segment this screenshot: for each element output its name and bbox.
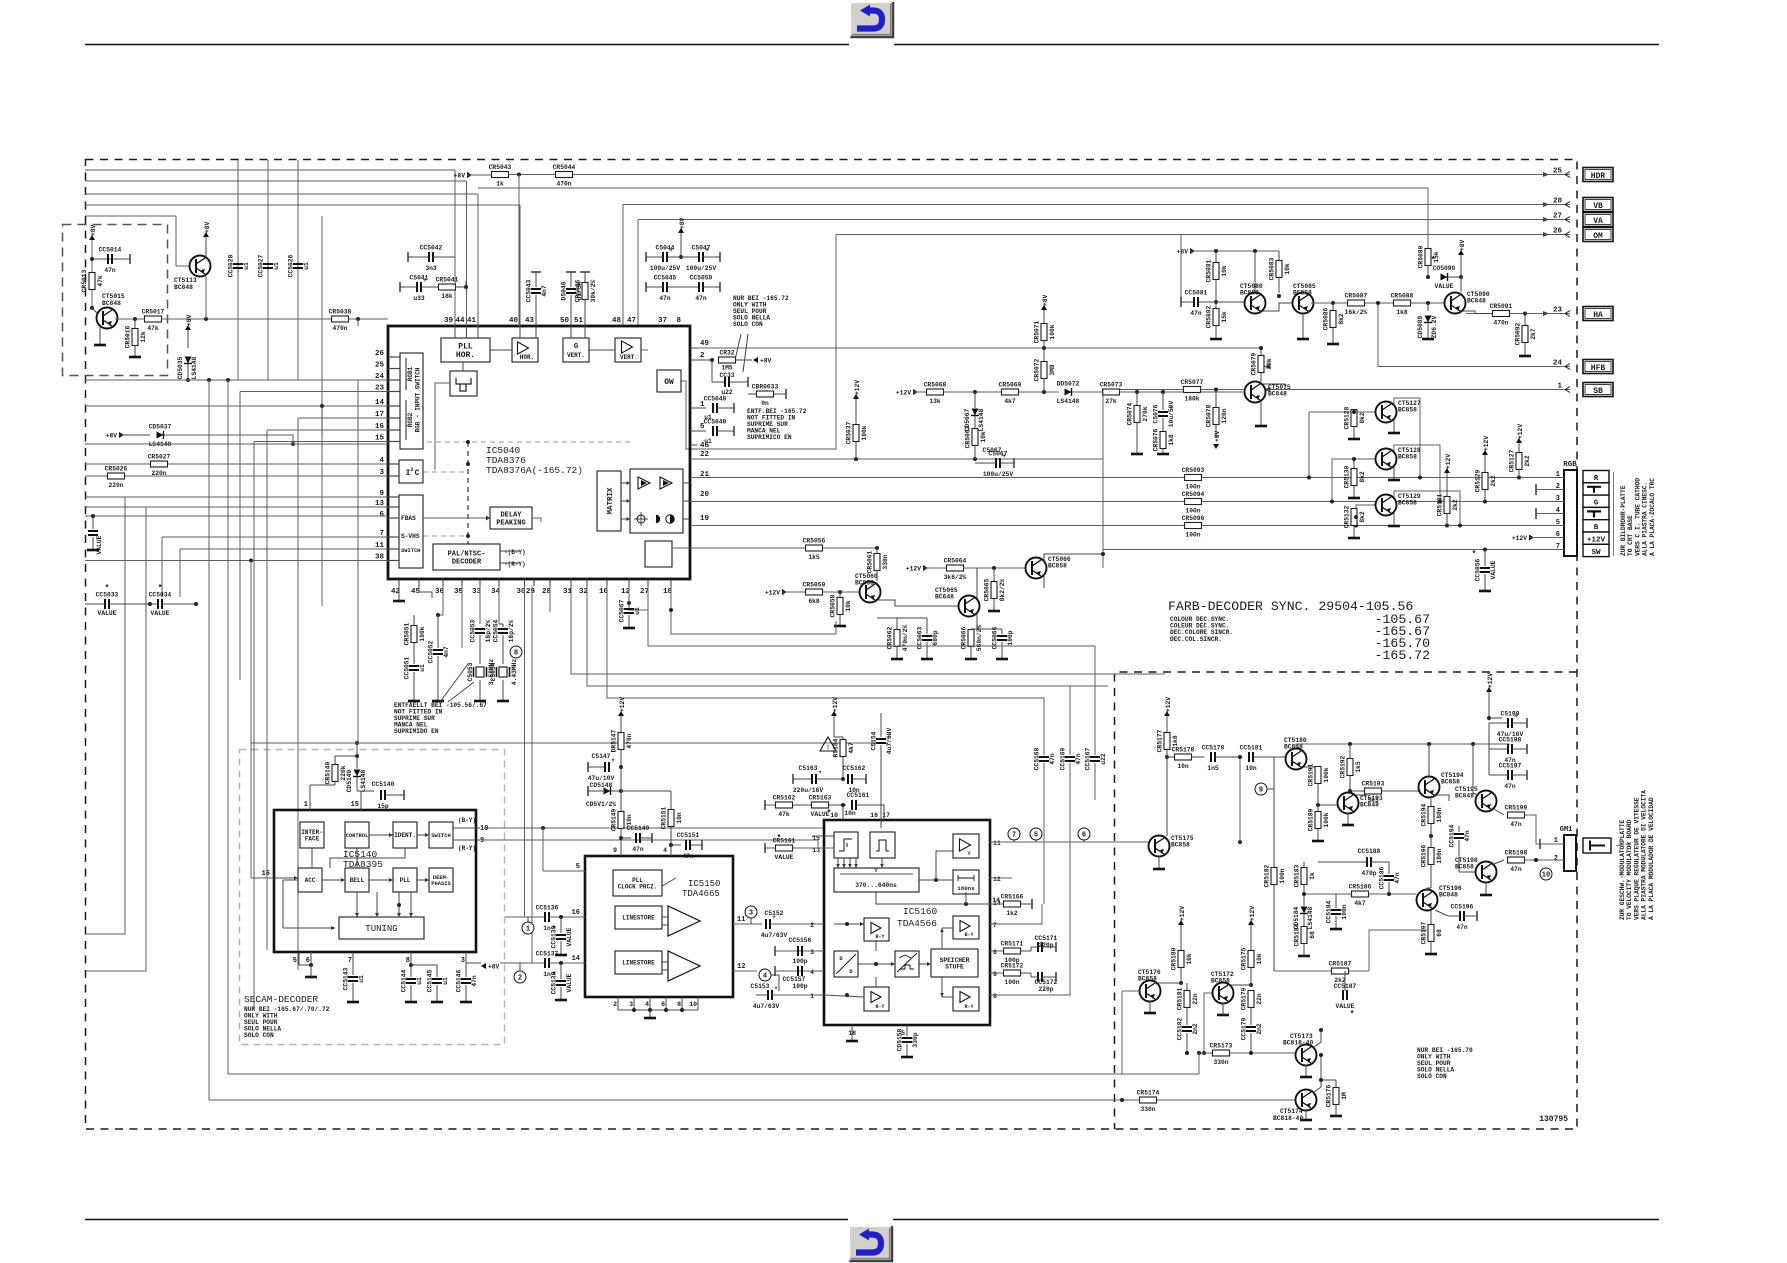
wire <box>690 347 697 349</box>
resistor CR5078 <box>1206 404 1229 427</box>
svg-text:CR5094: CR5094 <box>1182 491 1205 498</box>
svg-text:2: 2 <box>1554 855 1558 863</box>
warning triangle R5164 <box>820 737 836 751</box>
junction <box>1331 301 1335 305</box>
wire <box>357 319 359 326</box>
diode <box>1300 907 1308 914</box>
junction <box>845 993 849 997</box>
resistor CR5186 <box>1349 884 1372 908</box>
svg-text:CC5034: CC5034 <box>149 592 172 599</box>
wire CR5061 top <box>876 548 878 554</box>
wire node <box>971 628 1002 630</box>
svg-text:5: 5 <box>293 957 297 965</box>
wire CR5161 left <box>765 847 776 849</box>
svg-text:CD5158: CD5158 <box>897 1028 904 1051</box>
svg-text:3: 3 <box>749 910 753 918</box>
wire CR5189 top <box>1317 805 1319 812</box>
wire CR5079 top <box>1260 348 1262 356</box>
svg-text:CR5172: CR5172 <box>1001 963 1024 970</box>
wire <box>465 952 467 963</box>
svg-text:VALUE: VALUE <box>1490 560 1497 579</box>
ground <box>965 658 977 661</box>
svg-text:u1: u1 <box>442 977 449 985</box>
power +8V <box>1041 294 1049 310</box>
svg-text:PLL: PLL <box>458 342 473 351</box>
svg-text:330n: 330n <box>1140 1106 1155 1113</box>
resistor CR5129 <box>1475 469 1498 492</box>
top-left dashed component box <box>63 225 168 376</box>
power +12V <box>896 389 918 397</box>
capacitor CC5052 <box>428 640 451 663</box>
wire CR5173 left <box>1199 1052 1213 1054</box>
svg-text:8: 8 <box>676 317 681 325</box>
wire CR5162 to CR5163 <box>793 804 812 806</box>
resistor CR5062 <box>887 625 910 652</box>
wire CC5194 top <box>1458 826 1460 832</box>
wire CC5188 right <box>1371 862 1389 874</box>
junction <box>874 962 878 966</box>
wire CC5063 top <box>926 618 928 634</box>
junction <box>91 514 95 518</box>
junction <box>436 613 440 617</box>
svg-text:VALUE: VALUE <box>566 927 573 946</box>
wire <box>1472 744 1474 793</box>
wire CC5042 right <box>433 256 455 258</box>
resistor CR5096 <box>1182 515 1205 539</box>
block <box>645 541 672 567</box>
svg-text:100n: 100n <box>1341 904 1348 919</box>
junction <box>1426 301 1430 305</box>
amplifier B-Y out symbol <box>960 921 970 932</box>
wire <box>876 892 990 904</box>
svg-text:CT5015: CT5015 <box>102 293 125 300</box>
ground <box>988 610 1000 613</box>
svg-text:3k6/2%: 3k6/2% <box>944 574 967 581</box>
block <box>953 916 979 939</box>
wire <box>1044 554 1103 560</box>
wire CC5198 right <box>1512 748 1527 750</box>
wire to TUNING x411 <box>410 892 412 917</box>
resistor CR5091 <box>1490 303 1513 327</box>
svg-text:CC5178: CC5178 <box>1202 745 1225 752</box>
diode <box>971 409 979 416</box>
wire CR5092 top <box>1524 314 1526 327</box>
resistor CR5079 <box>1251 352 1274 375</box>
wire pin 32 stub <box>586 579 588 586</box>
capacitor CC5027 <box>258 254 281 277</box>
wire CC5066 top <box>1001 629 1003 634</box>
wire CT5015 to CR5017 <box>115 318 144 320</box>
amplifier symbol G out <box>660 477 672 489</box>
svg-text:3: 3 <box>810 949 814 956</box>
svg-text:17: 17 <box>882 812 890 819</box>
block <box>339 917 424 939</box>
wire <box>1030 947 1032 951</box>
wire to CR5178 <box>1167 756 1175 758</box>
resistor CR5175 <box>1241 947 1264 970</box>
wire <box>941 977 943 997</box>
wire <box>629 586 648 610</box>
svg-text:16: 16 <box>572 909 580 917</box>
wire aux out to CR5056 <box>672 547 806 549</box>
transistor CT5080 <box>1245 293 1266 314</box>
svg-text:47k: 47k <box>147 325 159 332</box>
wire <box>836 234 1570 236</box>
svg-text:CR5051: CR5051 <box>404 622 411 645</box>
capacitor CC5184 <box>1326 900 1349 923</box>
svg-text:2: 2 <box>613 1001 617 1008</box>
wire vertical x254 <box>253 442 255 1011</box>
junction <box>226 378 230 382</box>
wire <box>357 380 359 743</box>
junction <box>204 317 208 321</box>
diode <box>1441 273 1448 281</box>
wire <box>1356 794 1366 796</box>
svg-text:1k: 1k <box>496 181 504 188</box>
wire +8V to CR5043 <box>467 174 491 176</box>
resistor CR5074 <box>1127 402 1150 425</box>
svg-text:u1: u1 <box>634 607 641 615</box>
wire CC5048 right <box>717 407 734 409</box>
svg-text:0n: 0n <box>761 400 769 407</box>
svg-text:-(R-Y): -(R-Y) <box>504 561 526 568</box>
svg-text:DR5147: DR5147 <box>611 729 618 752</box>
junction <box>1319 1078 1323 1082</box>
resistor CR5041 <box>436 277 459 301</box>
wire stub <box>570 272 572 287</box>
svg-text:HFB: HFB <box>1591 364 1606 373</box>
wire CC5067 bottom <box>628 615 630 627</box>
svg-text:+8V: +8V <box>204 221 211 233</box>
wire CR5178 to CC5178 <box>1192 756 1205 758</box>
wire CR5068 to CR5069 <box>944 391 1002 393</box>
power +8V <box>185 314 193 330</box>
svg-text:CR5026: CR5026 <box>105 466 128 473</box>
svg-text:1k8: 1k8 <box>1396 309 1408 316</box>
junction <box>875 546 879 550</box>
ground <box>834 625 846 628</box>
capacitor C5154 <box>871 728 894 755</box>
svg-text:+12V: +12V <box>1487 673 1494 688</box>
resistor CR5059 <box>803 582 826 606</box>
wire <box>990 884 1070 995</box>
resistor CR5046 <box>575 279 598 302</box>
wire <box>818 950 824 952</box>
svg-text:CC5139: CC5139 <box>551 925 558 948</box>
svg-text:100n: 100n <box>1279 868 1286 883</box>
svg-text:+12V: +12V <box>619 697 626 712</box>
svg-text:3: 3 <box>461 957 465 965</box>
wire <box>1158 982 1181 984</box>
wire <box>1459 871 1475 873</box>
capacitor <box>605 757 615 772</box>
wire DD5072 to CR5073 <box>1072 391 1103 393</box>
svg-text:CC5026: CC5026 <box>288 254 295 277</box>
resistor CR5132 <box>1344 505 1367 528</box>
svg-text:BC648: BC648 <box>935 594 954 601</box>
svg-text:10k: 10k <box>1256 953 1263 965</box>
junction <box>1458 524 1462 528</box>
wire <box>875 977 877 987</box>
capacitor CC5146 <box>456 969 479 992</box>
wire CR5072 to rail <box>1043 379 1045 393</box>
svg-text:BC818-40: BC818-40 <box>1283 1040 1313 1047</box>
svg-text:CR5128: CR5128 <box>1344 406 1351 429</box>
wire pin 15 stub <box>388 441 400 443</box>
wire <box>1239 757 1241 842</box>
wire CR5037 to pin22 line <box>855 442 857 460</box>
wire <box>419 586 432 598</box>
resistor CR5068 <box>924 382 947 406</box>
capacitor <box>1038 942 1042 952</box>
capacitor CC5143 <box>343 967 366 990</box>
capacitor C5067 <box>983 451 1013 479</box>
wire <box>1489 748 1508 750</box>
wire CR5058 top <box>839 592 841 598</box>
svg-text:CC5171: CC5171 <box>1035 935 1058 942</box>
wire +8V down <box>91 240 93 308</box>
wire <box>1448 915 1460 917</box>
wire CC5053 to crystal <box>479 635 481 664</box>
wire <box>477 326 479 338</box>
svg-text:CC5033: CC5033 <box>96 592 119 599</box>
wire <box>1102 390 1104 569</box>
wire <box>648 586 1095 646</box>
capacitor CC5048 <box>704 396 727 414</box>
wire C5053 bottom <box>479 680 481 700</box>
svg-text:+8V: +8V <box>106 433 118 440</box>
wire OM to CC5081 <box>1180 235 1182 298</box>
wire <box>251 877 274 879</box>
wire <box>356 848 358 868</box>
ground <box>129 356 141 359</box>
svg-text:CC5043: CC5043 <box>526 279 533 302</box>
junction <box>1354 524 1358 528</box>
svg-text:BC858: BC858 <box>1398 454 1417 461</box>
junction <box>1387 892 1391 896</box>
svg-text:18p/2%: 18p/2% <box>485 619 492 642</box>
capacitor CC5145 <box>427 969 450 992</box>
junction <box>1042 390 1046 394</box>
ground <box>1480 894 1492 897</box>
wire CC5184 top <box>1335 894 1337 908</box>
wire <box>1202 525 1565 527</box>
wire CC5139 top <box>560 917 562 933</box>
svg-text:10: 10 <box>480 825 488 833</box>
wire CR5081 bottom <box>1215 280 1217 303</box>
wire pin 25 stub <box>388 368 400 370</box>
wire CR5179 bottom <box>1250 1008 1252 1026</box>
wire <box>1463 311 1492 314</box>
wire to ground <box>649 1010 651 1017</box>
wire CR5079 to CT5075 <box>1260 373 1262 383</box>
resistor CR5191 <box>1308 763 1331 786</box>
inline connector 2 <box>514 971 526 983</box>
crystal C5054 <box>490 659 518 686</box>
wire <box>519 326 521 338</box>
junction <box>186 378 190 382</box>
wire <box>1489 774 1508 776</box>
wire <box>1309 412 1375 478</box>
wire CC5149 right <box>640 837 652 839</box>
wire <box>1318 804 1337 806</box>
power +12V <box>1444 454 1452 473</box>
wire to CT5196 base region <box>1369 930 1427 971</box>
wire <box>283 927 335 929</box>
svg-text:LS4148: LS4148 <box>1307 906 1314 929</box>
svg-text:CR5068: CR5068 <box>924 382 947 389</box>
wire CC5187 top <box>1344 971 1346 991</box>
wire CR5177 bottom <box>1166 750 1168 758</box>
connector label HFB <box>1583 360 1613 374</box>
wire C5047 right <box>703 256 720 258</box>
svg-text:*: * <box>827 809 832 818</box>
wire CR5131 bottom <box>1446 514 1448 526</box>
wire CR5086 bottom <box>1332 328 1334 344</box>
wire CR5073 to CT5075 <box>1120 391 1244 393</box>
wire <box>85 496 388 498</box>
svg-text:BC858: BC858 <box>1455 864 1474 871</box>
wire <box>454 326 456 338</box>
resistor CR5072 <box>1034 358 1057 381</box>
wire <box>85 215 176 217</box>
resistor CR5197 <box>1421 921 1444 944</box>
resistor CR5065 <box>984 578 1007 601</box>
IC5040 internal dashed frame <box>400 441 633 443</box>
svg-text:CR5151: CR5151 <box>661 806 668 829</box>
wire CC5033 right <box>109 603 150 605</box>
wire (B-Y) out <box>453 827 480 829</box>
wire CR5183 top <box>1303 862 1305 868</box>
resistor R5164 <box>833 738 856 757</box>
wire <box>690 501 1185 503</box>
wire CR5149 to pin9 <box>620 829 622 857</box>
svg-text:CR5179: CR5179 <box>1241 987 1248 1010</box>
capacitor C5047 <box>686 245 716 273</box>
resistor CR5026 <box>105 466 128 490</box>
wire C5163 left <box>793 778 812 780</box>
svg-text:CR5130: CR5130 <box>1344 465 1351 488</box>
wire <box>435 383 450 470</box>
wire CR5166 right <box>1021 903 1033 905</box>
resistor CR32 <box>719 350 736 364</box>
wire CR5181 top <box>1186 983 1188 991</box>
junction <box>207 378 211 382</box>
wire CC5168 bottom <box>1043 763 1045 904</box>
wire CC5049 right <box>717 430 734 432</box>
inline connector 9 <box>1255 783 1267 795</box>
ground <box>846 1040 858 1043</box>
wire CC5188 left <box>1318 861 1367 863</box>
ground <box>460 1001 472 1004</box>
wire CC5151 right <box>690 844 702 846</box>
wire <box>976 568 978 598</box>
wire pin 26 stub <box>388 356 400 358</box>
wire CC33 right <box>729 381 748 383</box>
wire <box>697 347 1261 349</box>
svg-text:10n: 10n <box>1177 763 1189 770</box>
svg-text:+12V: +12V <box>1587 537 1606 545</box>
svg-text:CR5173: CR5173 <box>1210 1043 1233 1050</box>
svg-text:100p: 100p <box>792 983 807 990</box>
bracket line GM1 label <box>1616 845 1620 847</box>
svg-text:8k2: 8k2 <box>1359 511 1366 523</box>
wire CD5184 bottom <box>1303 914 1305 927</box>
svg-text:CR5069: CR5069 <box>999 382 1022 389</box>
svg-text:CR5180: CR5180 <box>1171 947 1178 970</box>
capacitor CC5186 <box>1379 866 1402 889</box>
svg-text:CC5181: CC5181 <box>1240 745 1263 752</box>
label box SW of RGB connector <box>1583 544 1609 556</box>
wire from bus <box>1121 991 1123 1074</box>
outer dashed board border <box>86 160 1578 1130</box>
svg-text:CR5175: CR5175 <box>1241 947 1248 970</box>
wire CR5194 top <box>1430 799 1432 807</box>
svg-text:CR5037: CR5037 <box>846 421 853 444</box>
wire base CT5015 <box>92 308 97 313</box>
svg-text:8k2/2%: 8k2/2% <box>999 578 1006 601</box>
capacitor CC5028 <box>228 254 251 277</box>
svg-text:+8V: +8V <box>186 314 193 326</box>
op-amp U IC5040 TDA8376 outline <box>388 326 690 579</box>
svg-text:BC858: BC858 <box>1138 976 1157 983</box>
resistor CR5178 <box>1172 747 1195 771</box>
wire CR5189 bottom <box>1317 829 1319 841</box>
inline connector 3 <box>745 906 757 918</box>
wire CR5038 to IC <box>349 318 389 320</box>
wire <box>990 904 1042 924</box>
wire circ3 <box>750 918 752 924</box>
resistor CR5017 <box>142 309 165 333</box>
wire <box>941 928 943 949</box>
ground <box>497 700 509 703</box>
ground <box>1348 438 1360 441</box>
wire pin6 down <box>665 997 667 1010</box>
junction <box>1426 275 1430 279</box>
inline connector 5 <box>1030 828 1042 840</box>
block <box>953 987 979 1011</box>
svg-text:CD5V1/2%: CD5V1/2% <box>586 801 616 808</box>
svg-text:12: 12 <box>993 876 1001 883</box>
svg-text:29: 29 <box>526 588 536 596</box>
junction <box>466 462 470 466</box>
svg-text:7: 7 <box>993 922 997 929</box>
svg-text:RGB1: RGB1 <box>407 366 414 381</box>
wire <box>1485 882 1487 894</box>
wire <box>662 924 668 926</box>
wire <box>298 952 300 965</box>
svg-text:10u/50V: 10u/50V <box>1168 401 1175 428</box>
wire pin 45 stub <box>418 579 420 586</box>
wire <box>858 963 895 965</box>
wire CC5196 right <box>1464 915 1477 917</box>
svg-text:8: 8 <box>677 1001 681 1008</box>
svg-text:14: 14 <box>572 955 580 963</box>
wire pin 34 stub <box>498 579 500 586</box>
svg-text:7: 7 <box>348 957 352 965</box>
pin 25 <box>1543 168 1570 178</box>
block <box>834 951 858 977</box>
capacitor C5199 <box>1497 711 1524 739</box>
wire +8V to CT5113 collector <box>205 237 207 257</box>
svg-text:D5046: D5046 <box>561 281 568 300</box>
capacitor CC5042 <box>420 245 443 273</box>
svg-text:SUPRIMICO EN: SUPRIMICO EN <box>747 434 792 441</box>
svg-text:4: 4 <box>645 1001 649 1008</box>
svg-text:+8V: +8V <box>1459 239 1466 251</box>
wire CC5139 bottom <box>560 941 562 954</box>
block <box>953 870 979 894</box>
